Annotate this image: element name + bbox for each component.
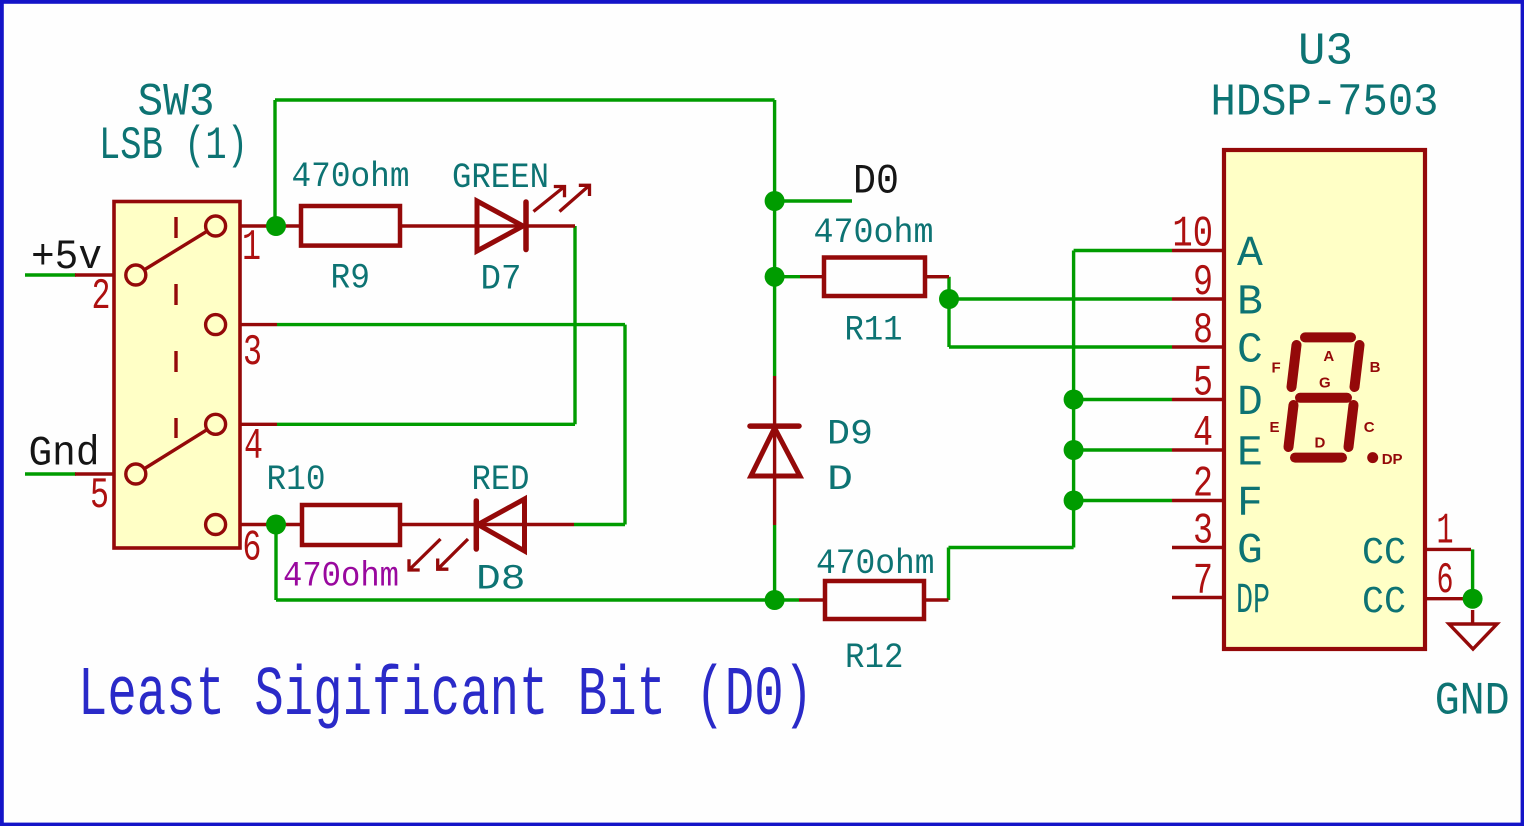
svg-text:2: 2 <box>92 272 111 322</box>
svg-text:C: C <box>1364 419 1375 436</box>
svg-text:R12: R12 <box>845 638 904 678</box>
svg-text:A: A <box>1323 348 1334 365</box>
svg-text:7: 7 <box>1193 557 1213 607</box>
svg-text:F: F <box>1237 479 1263 528</box>
svg-text:D: D <box>827 460 853 500</box>
svg-text:D: D <box>1315 435 1326 452</box>
svg-text:470ohm: 470ohm <box>816 544 935 584</box>
svg-text:2: 2 <box>1193 460 1213 510</box>
svg-text:3: 3 <box>243 328 262 378</box>
svg-text:B: B <box>1237 277 1263 326</box>
svg-text:470ohm: 470ohm <box>292 157 410 197</box>
svg-text:A: A <box>1237 229 1263 278</box>
svg-text:HDSP-7503: HDSP-7503 <box>1211 77 1439 128</box>
svg-text:RED: RED <box>472 460 530 500</box>
svg-text:Gnd: Gnd <box>29 430 100 478</box>
svg-text:CC: CC <box>1362 581 1406 624</box>
svg-text:4: 4 <box>1193 409 1213 459</box>
svg-text:CC: CC <box>1362 532 1406 575</box>
svg-text:E: E <box>1237 428 1263 477</box>
svg-text:4: 4 <box>244 422 263 472</box>
svg-text:U3: U3 <box>1298 27 1353 78</box>
svg-text:D: D <box>1237 378 1263 427</box>
svg-text:GREEN: GREEN <box>452 158 549 198</box>
svg-text:GND: GND <box>1435 675 1510 727</box>
svg-text:D8: D8 <box>476 559 526 599</box>
svg-text:B: B <box>1370 359 1381 376</box>
svg-text:LSB (1): LSB (1) <box>99 120 248 172</box>
svg-text:5: 5 <box>1193 359 1213 409</box>
svg-text:C: C <box>1237 325 1263 374</box>
svg-text:8: 8 <box>1193 306 1213 356</box>
svg-text:F: F <box>1272 360 1281 377</box>
svg-text:3: 3 <box>1193 507 1213 557</box>
svg-text:R11: R11 <box>845 310 903 350</box>
svg-text:E: E <box>1270 419 1280 436</box>
svg-text:R10: R10 <box>267 460 326 500</box>
svg-text:R9: R9 <box>331 258 371 298</box>
svg-text:6: 6 <box>1437 556 1454 606</box>
svg-text:D9: D9 <box>827 415 873 455</box>
svg-text:G: G <box>1237 526 1263 575</box>
svg-text:DP: DP <box>1236 576 1270 625</box>
svg-text:1: 1 <box>1437 507 1454 557</box>
svg-text:1: 1 <box>242 223 261 273</box>
svg-text:9: 9 <box>1193 258 1213 308</box>
svg-text:D0: D0 <box>853 158 899 206</box>
svg-text:D7: D7 <box>481 259 522 299</box>
svg-text:G: G <box>1319 375 1331 392</box>
svg-text:6: 6 <box>242 524 261 574</box>
svg-text:470ohm: 470ohm <box>814 213 934 253</box>
svg-text:5: 5 <box>90 471 109 521</box>
svg-text:10: 10 <box>1172 210 1213 260</box>
svg-text:Least Sigificant Bit (D0): Least Sigificant Bit (D0) <box>78 657 813 736</box>
svg-text:470ohm: 470ohm <box>283 556 399 596</box>
svg-text:DP: DP <box>1382 451 1403 468</box>
